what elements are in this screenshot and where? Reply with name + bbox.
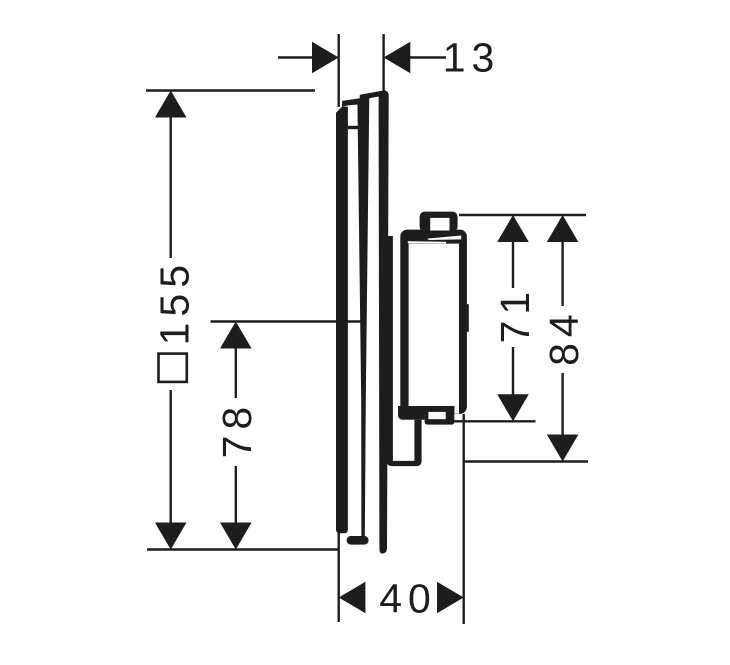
arrow right 40 bbox=[437, 582, 464, 614]
arrow right 13 (tip at left ext line) bbox=[312, 42, 339, 74]
dim stem 78 lower bbox=[235, 466, 237, 524]
arrow up 78 bbox=[220, 322, 252, 349]
arrow down 71 bbox=[497, 394, 529, 421]
svg-text:78: 78 bbox=[214, 401, 260, 459]
svg-text:71: 71 bbox=[492, 286, 538, 344]
extension line 13 left bbox=[338, 34, 340, 107]
plate sleeve tapered bar bbox=[357, 95, 369, 539]
cartridge bottom tab interior bbox=[428, 412, 445, 419]
cartridge body interior bbox=[409, 244, 459, 407]
cartridge side slot right of bottom tab bbox=[454, 406, 459, 414]
arrow up 155 bbox=[155, 91, 187, 118]
cartridge lid slit wedge bbox=[427, 236, 461, 241]
dim stem 78 upper bbox=[235, 347, 237, 398]
extension line 13 right bbox=[382, 34, 384, 91]
cartridge top tab interior bbox=[430, 218, 449, 231]
extension line top of 155/78 plate top bbox=[146, 89, 315, 91]
cartridge foot chunk bbox=[398, 406, 425, 420]
arrow up 71 bbox=[497, 215, 529, 242]
cartridge flange and U-bracket bbox=[387, 236, 422, 466]
plate rosette top cap bbox=[342, 98, 360, 107]
dim stem 71 lower bbox=[512, 347, 514, 396]
plate top cap bbox=[360, 90, 385, 99]
svg-text:40: 40 bbox=[379, 576, 437, 622]
dim stem 84 upper bbox=[561, 240, 563, 306]
extension line top of 78 bbox=[211, 320, 367, 322]
plate sleeve foot bbox=[347, 536, 369, 545]
arrow down 78 bbox=[220, 523, 252, 550]
dim stem 71 upper bbox=[512, 240, 514, 288]
extension line bottom of 71 bbox=[453, 420, 536, 422]
arrow left 40 bbox=[339, 582, 366, 614]
dim tail 13 right bbox=[407, 56, 446, 58]
svg-text:84: 84 bbox=[541, 308, 587, 366]
arrow left 13 (tip at right ext line) bbox=[384, 42, 411, 74]
dim stem 155 lower bbox=[169, 390, 171, 524]
svg-text:155: 155 bbox=[152, 259, 198, 345]
arrow down 84 bbox=[547, 435, 579, 462]
cartridge lid sliver bbox=[408, 241, 446, 243]
plate right wall bbox=[379, 90, 389, 553]
cartridge body outline bbox=[400, 230, 467, 414]
plate rosette left wall bbox=[336, 107, 348, 534]
svg-text:13: 13 bbox=[443, 35, 501, 81]
cartridge top tab bbox=[420, 212, 458, 232]
dim stem 84 lower bbox=[561, 373, 563, 436]
cartridge bottom tab bbox=[425, 406, 455, 425]
extension line bottom of 155/78 bbox=[147, 548, 339, 550]
dim stem 155 upper bbox=[169, 115, 171, 258]
cartridge right wall clip tick bbox=[467, 304, 469, 332]
plate rosette slot crossbar bbox=[348, 126, 359, 129]
label square symbol of 155 bbox=[159, 354, 187, 382]
dim tail 13 left bbox=[278, 56, 314, 58]
extension line top of 71/84 bbox=[459, 214, 586, 216]
arrow down 155 bbox=[155, 523, 187, 550]
arrow up 84 bbox=[547, 215, 579, 242]
extension line 40 right bbox=[463, 414, 465, 624]
extension line 40 left bbox=[338, 533, 340, 622]
extension line bottom of 84 bbox=[464, 460, 588, 462]
